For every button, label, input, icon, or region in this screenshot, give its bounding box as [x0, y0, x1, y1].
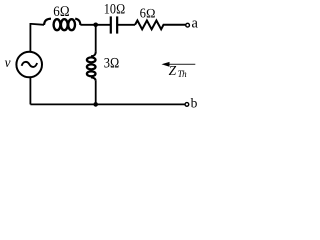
svg-text:6Ω: 6Ω: [53, 4, 70, 20]
svg-text:a: a: [192, 16, 199, 32]
svg-text:b: b: [191, 96, 198, 111]
svg-text:v: v: [5, 55, 11, 70]
svg-text:6Ω: 6Ω: [140, 5, 156, 20]
svg-text:Th: Th: [178, 69, 188, 79]
svg-text:Z: Z: [169, 63, 177, 78]
svg-text:10Ω: 10Ω: [104, 2, 126, 18]
svg-text:3Ω: 3Ω: [104, 56, 120, 72]
